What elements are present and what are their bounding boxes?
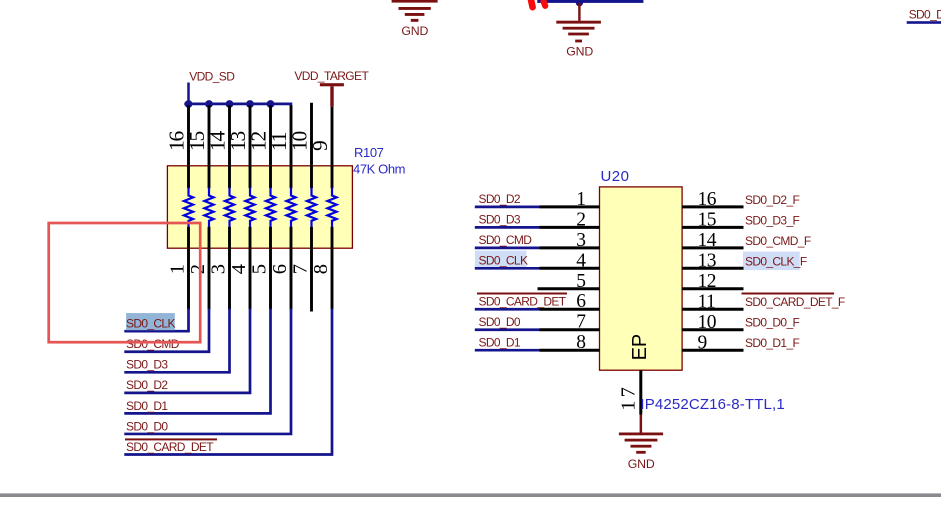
svg-text:10: 10 [698,312,717,333]
wire pin 16 top [187,105,190,188]
svg-text:VDD_TARGET: VDD_TARGET [294,69,369,83]
wire net SD0_D0 [475,328,540,331]
pin 15 [682,226,743,229]
wire pin 15 top [208,105,211,188]
wire pin 3 bottom [228,227,231,310]
svg-text:SD0_CARD_DET_F: SD0_CARD_DET_F [745,295,845,309]
wire pin 2 bottom [208,227,211,310]
wire net SD0_CMD [124,309,209,352]
resistor network R107 body [167,166,352,248]
svg-text:SD0_CMD_F: SD0_CMD_F [745,234,811,248]
wire net SD0_D0 [124,309,291,434]
svg-text:VDD_SD: VDD_SD [189,70,235,84]
svg-text:11: 11 [698,291,716,312]
svg-text:14: 14 [698,230,717,251]
pin 4 [540,267,600,270]
junction dot pin 16 [185,100,193,108]
svg-text:2: 2 [187,264,209,274]
wire pin 13 top [249,105,252,188]
resistor R107 element 4 [245,188,254,228]
junction dot pin 13 [246,100,254,108]
overbar SD0_CARD_DET [125,438,217,440]
svg-text:U20: U20 [601,168,630,185]
svg-text:4: 4 [576,250,586,271]
wire pin 5 bottom [269,227,272,310]
pin 11 [682,308,743,311]
svg-text:2: 2 [576,209,585,230]
svg-text:GND: GND [401,24,428,38]
svg-text:SD0_CARD_DET: SD0_CARD_DET [126,440,214,454]
svg-text:GND: GND [566,44,593,58]
wire net SD0_D2 [475,206,540,209]
wire net SD0_CLK [475,267,540,270]
wire pin 10 top [310,103,313,189]
svg-text:SD0_CLK: SD0_CLK [479,254,528,268]
svg-text:EP: EP [629,334,651,361]
wire net SD0_D2 [124,309,250,393]
wire net SD0_CARD_DET [124,309,332,455]
svg-text:SD0_D2: SD0_D2 [479,192,521,206]
svg-text:6: 6 [269,264,291,274]
junction dot [576,0,583,6]
svg-text:SD0_D2_F: SD0_D2_F [745,193,799,207]
svg-text:SD0_CLK_F: SD0_CLK_F [745,254,807,268]
highlight SD0_CLK_F (U20 pin 13) [743,252,800,271]
svg-text:8: 8 [576,332,585,353]
svg-text:SD0_D1: SD0_D1 [126,399,168,413]
junction dot pin 12 [267,100,275,108]
sheet border line [0,493,941,497]
pin 6 [540,308,600,311]
svg-text:17: 17 [618,384,640,411]
resistor R107 element 3 [225,188,234,228]
ground GND (U20) [619,433,663,472]
IC U20 body [600,187,683,370]
junction dot pin 14 [226,100,234,108]
svg-text:SD0_CLK: SD0_CLK [126,317,175,331]
svg-text:5: 5 [249,264,271,274]
svg-text:GND: GND [628,457,655,471]
svg-text:SD0_D1: SD0_D1 [479,335,521,349]
svg-text:5: 5 [576,271,585,292]
wire net SD0_CLK [124,309,188,332]
pin 3 [540,246,600,249]
svg-text:47K Ohm: 47K Ohm [353,162,405,177]
svg-text:9: 9 [308,141,332,151]
ground GND (top left) [392,0,438,38]
svg-text:8: 8 [310,264,332,274]
svg-text:3: 3 [576,230,585,251]
selection rectangle [49,223,201,342]
wire pin 14 top [228,105,231,188]
svg-text:SD0_D0: SD0_D0 [126,419,168,433]
svg-text:SD0_D3: SD0_D3 [126,358,168,372]
svg-text:SD0_CARD_DET: SD0_CARD_DET [479,294,567,308]
pin 14 [682,246,743,249]
wire pin 7 bottom [310,227,313,312]
svg-text:9: 9 [698,332,707,353]
pin 17 wire [639,370,642,414]
svg-text:6: 6 [576,291,586,312]
pin 13 [682,267,743,270]
svg-text:7: 7 [290,264,312,274]
wire pin 1 bottom [187,227,190,310]
pin 1 [540,205,600,208]
pin 12 [682,287,743,290]
svg-text:1: 1 [576,189,585,210]
resistor R107 element 1 [184,188,193,228]
wire VDD_SD bus [184,104,291,108]
pin 5 stub (unconnected) [538,287,600,290]
overbar SD0_CARD_DET_F [742,293,835,295]
svg-text:IP4252CZ16-8-TTL,1: IP4252CZ16-8-TTL,1 [640,396,784,413]
ground GND (top middle) [556,3,601,59]
wire net SD0_CMD [475,246,540,249]
wire GND bus top [537,0,643,3]
resistor R107 element 5 [266,188,275,228]
highlight SD0_CLK (selected) [126,313,175,330]
svg-text:SD0_D2: SD0_D2 [126,378,168,392]
pin 10 [682,328,743,331]
wire pin 8 bottom [331,227,334,310]
wire pin 12 top [269,105,272,188]
svg-text:SD0_D2: SD0_D2 [909,8,941,22]
wire pin 6 bottom [290,227,293,310]
highlight SD0_CLK (U20 pin 4) [475,251,527,268]
svg-text:SD0_CMD: SD0_CMD [126,337,180,351]
resistor R107 element 8 [327,188,336,228]
wire net SD0_D3 [475,226,540,229]
svg-text:3: 3 [208,264,230,274]
wire net SD0_D1 [475,349,540,352]
svg-text:SD0_D0: SD0_D0 [479,315,521,329]
wire net SD0_D3 [124,309,229,373]
pin 7 [540,328,600,331]
svg-text:SD0_D3: SD0_D3 [479,213,521,227]
wire net SD0_D1 [124,309,270,414]
svg-text:15: 15 [698,210,717,231]
resistor R107 element 6 [286,188,295,228]
resistor R107 element 2 [204,188,213,228]
resistor R107 element 7 [307,188,316,228]
no-ERC marker (red, cut off) [531,0,546,7]
pin 8 [540,349,600,352]
wire net SD0_CARD_DET [475,308,540,311]
pin 16 [682,205,743,208]
junction dot pin 15 [205,100,213,108]
svg-text:SD0_CMD: SD0_CMD [479,233,533,247]
svg-text:12: 12 [698,271,717,292]
power port VDD_SD [189,70,236,105]
power port VDD_TARGET [294,69,369,107]
svg-text:7: 7 [576,312,586,333]
net label SD0_D2 (top right, cut off) [907,8,941,24]
wire pin 9 top [331,107,334,189]
svg-text:13: 13 [698,251,717,272]
svg-text:R107: R107 [354,145,384,160]
svg-text:SD0_D1_F: SD0_D1_F [745,336,799,350]
wire pin 4 bottom [249,227,252,310]
wire to GND [640,415,643,433]
wire pin 11 top [290,105,293,188]
svg-text:4: 4 [228,264,250,274]
pin 9 [682,349,743,352]
svg-text:SD0_D0_F: SD0_D0_F [745,316,799,330]
svg-text:16: 16 [698,189,717,210]
pin 2 [540,226,600,229]
overbar SD0_CARD_DET (U20) [477,293,567,295]
svg-text:SD0_D3_F: SD0_D3_F [745,213,799,227]
svg-text:1: 1 [167,264,189,274]
